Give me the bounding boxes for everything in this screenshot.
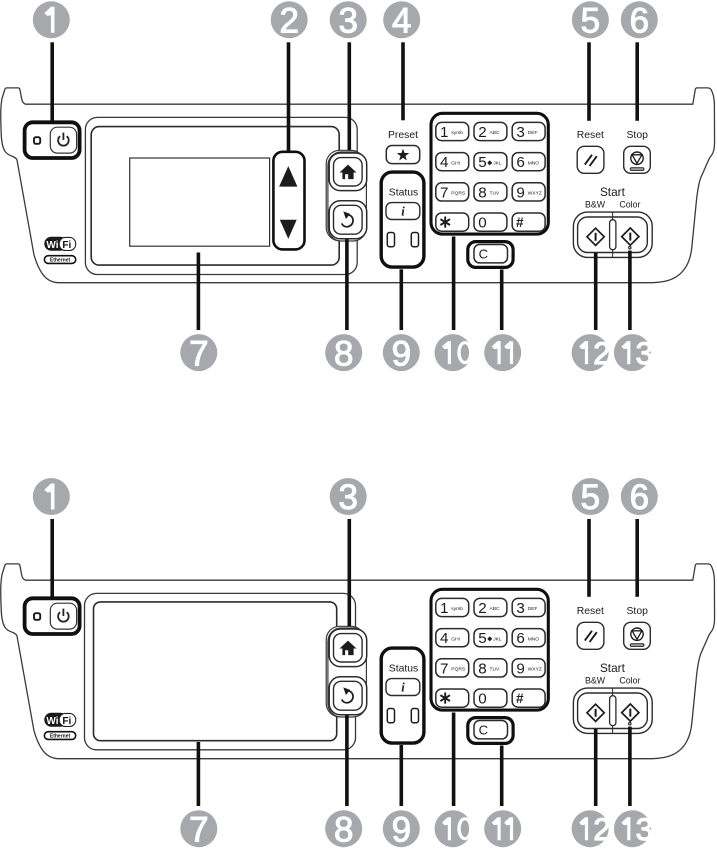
arrow strip (273, 152, 304, 250)
svg-text:Color: Color (619, 200, 640, 210)
back button (329, 201, 367, 239)
keypad key 6 MNO (512, 153, 545, 171)
svg-text:4: 4 (440, 630, 448, 647)
callout 10 (435, 334, 472, 371)
svg-text:7: 7 (440, 660, 448, 677)
svg-text:2: 2 (593, 335, 611, 371)
svg-text:3: 3 (636, 811, 654, 847)
C button housing (468, 718, 513, 744)
keypad key 1 symb (436, 122, 469, 140)
callout 9 (383, 334, 420, 371)
power icon (58, 133, 69, 146)
svg-text:MNO: MNO (528, 160, 540, 166)
keypad key 0 (474, 213, 507, 231)
WiFi logo (44, 237, 75, 251)
callout 7 (180, 810, 217, 847)
callout 4 (383, 1, 420, 38)
LCD screen (130, 158, 270, 246)
home back housing (326, 626, 365, 717)
svg-text:9: 9 (392, 334, 411, 373)
callout 10 (435, 810, 472, 847)
callout line (635, 519, 639, 597)
Ethernet label (44, 732, 75, 740)
svg-text:9: 9 (516, 660, 524, 677)
touchscreen bezel (85, 593, 356, 749)
svg-text:Wi: Wi (46, 716, 58, 727)
svg-text:WXYZ: WXYZ (528, 667, 542, 673)
svg-text:0: 0 (478, 215, 486, 232)
callout 11 (484, 810, 521, 847)
callout 9 (383, 810, 420, 847)
callout line (197, 253, 201, 331)
power cluster frame (25, 122, 80, 158)
svg-text:B&W: B&W (585, 200, 606, 210)
callout line (500, 746, 504, 807)
svg-text:i: i (401, 681, 405, 695)
svg-text:JKL: JKL (493, 636, 502, 642)
svg-text:ABC: ABC (490, 130, 501, 136)
panel shell (1, 88, 715, 283)
svg-text:Stop: Stop (627, 130, 649, 141)
svg-text:B&W: B&W (585, 676, 606, 686)
callout line (50, 42, 54, 122)
callout 11 (484, 334, 521, 371)
callout 6 (621, 1, 658, 38)
callout line (401, 42, 405, 120)
svg-text:7: 7 (440, 184, 448, 201)
svg-text:WXYZ: WXYZ (528, 191, 542, 197)
callout 5 (572, 478, 609, 515)
home button (329, 629, 367, 667)
callout 13 (614, 810, 651, 847)
start buttons group (573, 688, 652, 733)
power button (50, 127, 76, 153)
Reset button (577, 146, 604, 173)
keypad key 5 JKL (474, 153, 507, 171)
callout line (348, 42, 352, 150)
svg-text:JKL: JKL (493, 160, 502, 166)
svg-text:GHI: GHI (451, 160, 460, 166)
svg-text:PQRS: PQRS (451, 191, 466, 197)
callout 2 (271, 1, 308, 38)
svg-text:2: 2 (478, 124, 486, 141)
C button housing (468, 242, 513, 268)
touchscreen (94, 602, 337, 741)
bottom panel (1, 564, 715, 759)
status LED slots (387, 233, 394, 247)
callout 12 (572, 334, 609, 371)
svg-text:Start: Start (600, 661, 626, 675)
Status housing (381, 648, 424, 743)
power button (50, 603, 76, 629)
svg-text:1: 1 (440, 600, 448, 617)
start B&W diamond (587, 704, 604, 721)
svg-text:3: 3 (636, 335, 654, 371)
svg-text:6: 6 (516, 630, 524, 647)
keypad key hash (512, 213, 545, 231)
svg-text:◆: ◆ (487, 635, 492, 642)
svg-text:0: 0 (478, 691, 486, 708)
keypad key 7 PQRS (436, 183, 469, 201)
svg-text:MNO: MNO (528, 636, 540, 642)
callout line (50, 519, 54, 598)
back icon (342, 211, 353, 226)
callout line (287, 42, 291, 153)
svg-text:2: 2 (478, 600, 486, 617)
keypad key 4 GHI (436, 153, 469, 171)
svg-text:#: # (516, 215, 524, 230)
svg-text:2: 2 (593, 811, 611, 847)
keypad key asterisk (436, 689, 469, 707)
svg-text:Wi: Wi (46, 240, 58, 251)
status info button (386, 679, 420, 696)
Stop button (624, 622, 651, 649)
svg-text:6: 6 (516, 154, 524, 171)
panel shell (1, 564, 715, 759)
keypad key 7 PQRS (436, 659, 469, 677)
svg-text:7: 7 (189, 334, 208, 373)
callout 5 (572, 1, 609, 38)
callout line (628, 251, 632, 330)
svg-text:PQRS: PQRS (451, 667, 466, 673)
start Color diamond (622, 228, 639, 245)
svg-text:2: 2 (279, 2, 298, 41)
svg-text:◆: ◆ (487, 159, 492, 166)
callout line (452, 237, 456, 331)
start Color diamond (622, 704, 639, 721)
keypad key 1 symb (436, 598, 469, 616)
svg-text:3: 3 (516, 124, 524, 141)
svg-text:symb: symb (451, 606, 463, 612)
svg-text:Color: Color (619, 676, 640, 686)
svg-text:Fi: Fi (62, 716, 71, 727)
down arrow (280, 220, 297, 239)
svg-text:DEF: DEF (528, 130, 538, 136)
callout line (594, 253, 598, 330)
callout 8 (325, 334, 362, 371)
svg-text:Reset: Reset (577, 130, 604, 141)
svg-text:symb: symb (451, 130, 463, 136)
callout line (400, 269, 404, 330)
keypad key asterisk (436, 213, 469, 231)
power cluster frame (25, 598, 80, 634)
callout line (594, 729, 598, 806)
callout line (587, 519, 591, 597)
keypad key 2 ABC (474, 122, 507, 140)
callout line (345, 240, 349, 331)
svg-text:Ethernet: Ethernet (50, 257, 71, 263)
keypad key 2 ABC (474, 598, 507, 616)
svg-text:5: 5 (478, 630, 486, 647)
color dot (629, 247, 631, 249)
svg-text:i: i (401, 205, 405, 219)
keypad key hash (512, 689, 545, 707)
svg-text:3: 3 (338, 2, 357, 41)
keypad key 4 GHI (436, 629, 469, 647)
callout 1 (33, 478, 70, 515)
back icon (342, 687, 353, 702)
callout 1 (33, 1, 70, 38)
up arrow (279, 166, 297, 187)
color dot (629, 723, 631, 725)
keypad key 8 TUV (474, 183, 507, 201)
callout 3 (330, 478, 367, 515)
home button (329, 153, 367, 191)
start B&W diamond (587, 228, 604, 245)
C key (474, 245, 508, 263)
callout line (587, 42, 591, 121)
svg-text:Reset: Reset (577, 606, 604, 617)
Ethernet label (44, 256, 75, 264)
svg-text:GHI: GHI (451, 636, 460, 642)
callout 13 (614, 334, 651, 371)
svg-text:9: 9 (516, 184, 524, 201)
keypad key 3 DEF (512, 598, 545, 616)
svg-text:DEF: DEF (528, 606, 538, 612)
keypad key 9 WXYZ (512, 659, 545, 677)
svg-text:1: 1 (440, 124, 448, 141)
back button (329, 677, 367, 715)
svg-text:4: 4 (392, 2, 411, 41)
callout 7 (180, 334, 217, 371)
svg-text:Stop: Stop (627, 606, 649, 617)
home back housing (326, 150, 365, 241)
svg-text:9: 9 (392, 810, 411, 849)
svg-text:7: 7 (189, 810, 208, 849)
svg-text:8: 8 (334, 334, 353, 373)
Stop button (624, 146, 651, 173)
callout line (452, 713, 456, 807)
home icon (340, 641, 357, 656)
power icon (58, 609, 69, 622)
svg-text:TUV: TUV (490, 667, 501, 673)
svg-text:3: 3 (516, 600, 524, 617)
svg-text:ABC: ABC (490, 606, 501, 612)
svg-text:6: 6 (630, 478, 649, 517)
callout 3 (330, 1, 367, 38)
LCD bezel outer (85, 117, 357, 274)
svg-text:6: 6 (630, 2, 649, 41)
status LED slots (387, 709, 394, 723)
callout line (345, 716, 349, 807)
svg-text:C: C (479, 723, 488, 738)
keypad key 3 DEF (512, 122, 545, 140)
callout line (500, 270, 504, 331)
WiFi logo (44, 713, 75, 727)
keypad key 5 JKL (474, 629, 507, 647)
LCD bezel inner (91, 127, 339, 266)
svg-text:5: 5 (581, 478, 600, 517)
keypad key 9 WXYZ (512, 183, 545, 201)
home icon (340, 165, 357, 180)
keypad key 0 (474, 689, 507, 707)
svg-text:TUV: TUV (490, 191, 501, 197)
power LED (34, 613, 40, 620)
keypad key 6 MNO (512, 629, 545, 647)
callout 12 (572, 810, 609, 847)
svg-text:Ethernet: Ethernet (50, 733, 71, 739)
svg-text:3: 3 (338, 478, 357, 517)
start buttons group (573, 212, 652, 257)
svg-text:Fi: Fi (62, 240, 71, 251)
power LED (34, 137, 40, 144)
callout line (635, 42, 639, 121)
svg-text:8: 8 (334, 810, 353, 849)
svg-text:Status: Status (389, 188, 418, 199)
svg-text:4: 4 (440, 154, 448, 171)
Preset button (386, 146, 419, 164)
svg-text:Start: Start (600, 185, 626, 199)
callout 8 (325, 810, 362, 847)
svg-text:Preset: Preset (388, 130, 418, 141)
svg-text:Status: Status (389, 664, 418, 675)
svg-text:5: 5 (581, 2, 600, 41)
Status housing (381, 172, 424, 267)
preset star (397, 149, 409, 161)
C key (474, 721, 508, 739)
top panel (1, 88, 715, 283)
callout line (400, 745, 404, 806)
svg-text:5: 5 (478, 154, 486, 171)
svg-text:#: # (516, 691, 524, 706)
callout line (628, 727, 632, 806)
callout line (197, 742, 201, 806)
svg-text:8: 8 (478, 184, 486, 201)
svg-text:C: C (479, 247, 488, 262)
callout 6 (621, 478, 658, 515)
numeric keypad frame (431, 113, 548, 234)
status info button (386, 203, 420, 220)
numeric keypad frame (431, 589, 548, 710)
callout line (348, 519, 352, 627)
Reset button (577, 622, 604, 649)
keypad key 8 TUV (474, 659, 507, 677)
svg-text:8: 8 (478, 660, 486, 677)
